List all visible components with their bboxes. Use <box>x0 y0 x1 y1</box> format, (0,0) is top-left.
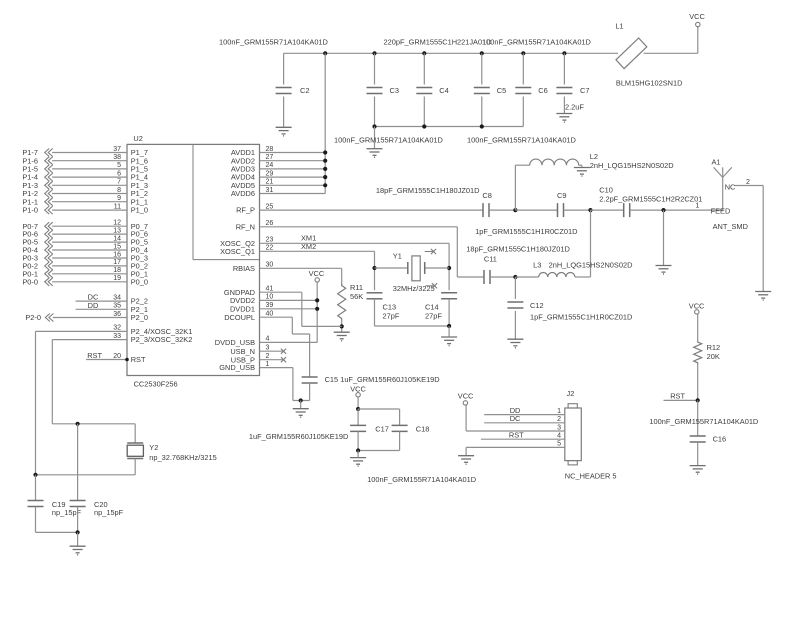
ground <box>441 336 457 338</box>
svg-text:CC2530F256: CC2530F256 <box>134 380 178 389</box>
node junction <box>513 275 517 279</box>
svg-text:27pF: 27pF <box>383 312 400 321</box>
svg-text:C4: C4 <box>439 86 448 95</box>
svg-text:20: 20 <box>113 353 121 360</box>
svg-text:24: 24 <box>266 162 274 169</box>
svg-text:34: 34 <box>113 294 121 301</box>
capacitor C12 <box>514 277 516 299</box>
inductor L2 <box>514 165 516 210</box>
ferrite bead L1 <box>616 38 647 69</box>
power VCC <box>696 22 700 26</box>
capacitor C4 <box>422 51 426 55</box>
wire XOSC_32K2 <box>51 340 53 424</box>
svg-text:40: 40 <box>266 311 274 318</box>
svg-text:DC: DC <box>510 414 521 423</box>
svg-text:XM2: XM2 <box>301 242 316 251</box>
ground <box>70 545 86 547</box>
svg-text:C18: C18 <box>416 425 430 434</box>
svg-text:P1_0: P1_0 <box>131 206 148 215</box>
ground <box>458 455 474 457</box>
svg-text:22: 22 <box>266 245 274 252</box>
node junction <box>356 407 360 411</box>
node junction <box>340 324 344 328</box>
wire <box>644 52 698 54</box>
wire <box>36 531 78 533</box>
resistor R12 <box>694 340 702 365</box>
svg-text:RF_P: RF_P <box>236 206 255 215</box>
wire <box>762 186 764 292</box>
svg-text:C3: C3 <box>390 86 399 95</box>
node junction <box>372 124 376 128</box>
pin 9 P1_1 <box>52 201 127 203</box>
svg-text:GND_USB: GND_USB <box>219 363 255 372</box>
net AVDD rail <box>324 53 326 193</box>
svg-text:11: 11 <box>114 203 121 210</box>
pin 8 P1_2 <box>52 193 127 195</box>
wire <box>375 325 450 327</box>
ground <box>350 457 366 459</box>
no-connect mark <box>425 251 433 253</box>
resistor R11 <box>341 268 343 283</box>
svg-text:C5: C5 <box>497 86 506 95</box>
svg-text:2nH_LQG15HS2N0S02D: 2nH_LQG15HS2N0S02D <box>590 161 674 170</box>
pin 16 P0_3 <box>52 257 127 259</box>
svg-text:C14: C14 <box>425 303 439 312</box>
svg-text:L2: L2 <box>590 152 598 161</box>
pin 3 USB_N <box>260 350 284 352</box>
svg-text:AVDD6: AVDD6 <box>231 189 255 198</box>
svg-text:FEED: FEED <box>711 206 731 215</box>
svg-text:33: 33 <box>113 333 121 340</box>
svg-text:VCC: VCC <box>689 12 705 21</box>
svg-text:XOSC_Q1: XOSC_Q1 <box>220 247 255 256</box>
svg-text:DVDD_USB: DVDD_USB <box>215 338 255 347</box>
pin 2 DC <box>484 422 565 424</box>
node junction <box>447 324 451 328</box>
svg-text:NC_HEADER 5: NC_HEADER 5 <box>565 471 617 480</box>
svg-text:32MHz/3225: 32MHz/3225 <box>393 284 435 293</box>
svg-text:37: 37 <box>113 146 121 153</box>
svg-text:36: 36 <box>113 311 121 318</box>
node junction <box>76 530 80 534</box>
svg-text:RST: RST <box>131 355 146 364</box>
svg-text:C9: C9 <box>557 191 566 200</box>
ground <box>690 465 706 467</box>
pin 28 AVDD1 <box>260 152 326 154</box>
node junction <box>299 398 303 402</box>
ground <box>276 126 292 128</box>
pin 14 P0_5 <box>52 241 127 243</box>
pin 41 GNDPAD <box>260 291 302 293</box>
capacitor C18 <box>399 409 401 425</box>
svg-text:21: 21 <box>266 179 274 186</box>
node junction <box>323 51 327 55</box>
svg-text:U2: U2 <box>133 134 142 143</box>
pin 15 P0_4 <box>52 249 127 251</box>
wire <box>358 450 400 452</box>
ground <box>656 265 672 267</box>
node junction <box>33 473 37 477</box>
wire <box>77 532 79 546</box>
wire <box>358 408 400 410</box>
svg-text:1: 1 <box>557 408 561 415</box>
pin 19 P0_0 <box>52 281 127 283</box>
svg-text:1uF_GRM155R60J105KE19D: 1uF_GRM155R60J105KE19D <box>249 432 348 441</box>
svg-text:C13: C13 <box>383 303 397 312</box>
pin 33 P2_3/XOSC_32K2 <box>52 339 127 341</box>
svg-text:5: 5 <box>557 441 561 448</box>
wire <box>284 52 618 54</box>
svg-text:15: 15 <box>113 243 121 250</box>
svg-text:7: 7 <box>117 179 121 186</box>
pin 24 AVDD3 <box>260 168 326 170</box>
svg-text:26: 26 <box>266 220 274 227</box>
pin 30 RBIAS <box>260 267 342 269</box>
connector J2 NC_HEADER 5 <box>565 408 582 461</box>
ground <box>556 113 572 115</box>
pin 1 GND_USB <box>260 367 293 369</box>
svg-text:P1-0: P1-0 <box>22 206 38 215</box>
svg-text:C10: C10 <box>599 185 613 194</box>
svg-text:4: 4 <box>557 433 561 440</box>
svg-text:100nF_GRM155R71A104KA01D: 100nF_GRM155R71A104KA01D <box>334 136 443 145</box>
ground <box>293 408 309 410</box>
svg-text:C7: C7 <box>580 86 589 95</box>
svg-text:C11: C11 <box>484 255 497 264</box>
pin 34 P2_2 <box>76 300 127 302</box>
svg-text:ANT_SMD: ANT_SMD <box>713 222 748 231</box>
svg-text:2.2uF: 2.2uF <box>565 103 584 112</box>
pin 18 P0_1 <box>52 273 127 275</box>
svg-text:4: 4 <box>266 336 270 343</box>
svg-text:3: 3 <box>266 345 270 352</box>
svg-text:23: 23 <box>266 237 274 244</box>
svg-text:P2_3/XOSC_32K2: P2_3/XOSC_32K2 <box>131 335 193 344</box>
pin 31 AVDD6 <box>260 193 326 195</box>
svg-text:1pF_GRM1555C1H1R0CZ01D: 1pF_GRM1555C1H1R0CZ01D <box>530 313 632 322</box>
wire <box>456 227 458 277</box>
svg-text:18pF_GRM1555C1H180JZ01D: 18pF_GRM1555C1H180JZ01D <box>466 245 570 254</box>
svg-text:C8: C8 <box>482 191 491 200</box>
svg-text:18: 18 <box>113 267 121 274</box>
svg-text:C17: C17 <box>375 425 389 434</box>
capacitor C6 <box>521 51 525 55</box>
svg-text:27: 27 <box>266 154 274 161</box>
svg-text:100nF_GRM155R71A104KA01D: 100nF_GRM155R71A104KA01D <box>649 417 758 426</box>
pin 38 P1_6 <box>52 160 127 162</box>
svg-text:2.2pF_GRM1555C1H2R2CZ01: 2.2pF_GRM1555C1H2R2CZ01 <box>599 195 702 204</box>
capacitor C10 <box>623 203 625 217</box>
capacitor C7 <box>562 51 566 55</box>
svg-text:30: 30 <box>266 262 274 269</box>
svg-text:R11: R11 <box>350 283 363 292</box>
svg-text:20K: 20K <box>707 352 720 361</box>
svg-text:BLM15HG102SN1D: BLM15HG102SN1D <box>616 79 683 88</box>
pin 4 DVDD_USB <box>260 341 318 343</box>
svg-text:VCC: VCC <box>458 392 474 401</box>
pin 3 VCC <box>466 430 565 432</box>
svg-text:29: 29 <box>266 170 274 177</box>
pin 40 DCOUPL <box>260 316 293 318</box>
svg-text:P0_0: P0_0 <box>131 277 148 286</box>
wire <box>374 127 376 149</box>
capacitor C11 <box>483 270 485 284</box>
pin 5 P1_5 <box>52 168 127 170</box>
svg-text:2: 2 <box>746 179 750 186</box>
svg-text:2: 2 <box>557 416 561 423</box>
inductor L3 <box>515 276 538 278</box>
wire <box>448 243 450 290</box>
svg-text:25: 25 <box>266 203 274 210</box>
wire <box>374 251 376 290</box>
pin 4 RST <box>481 438 565 440</box>
svg-text:9: 9 <box>117 195 121 202</box>
node junction <box>356 448 360 452</box>
svg-text:RST: RST <box>509 430 524 439</box>
svg-text:np_15pF: np_15pF <box>94 508 124 517</box>
svg-text:A1: A1 <box>712 157 721 166</box>
svg-text:1: 1 <box>696 203 700 210</box>
node junction <box>76 422 80 426</box>
pin 26 RF_N <box>260 226 458 228</box>
capacitor C2 <box>283 53 285 84</box>
crystal Y2 <box>134 424 136 443</box>
svg-text:Y2: Y2 <box>149 443 158 452</box>
svg-text:100nF_GRM155R71A104KA01D: 100nF_GRM155R71A104KA01D <box>219 38 328 47</box>
wire <box>697 27 699 54</box>
capacitor C5 <box>480 51 484 55</box>
wire XOSC_32K1 <box>35 331 37 474</box>
pin 20 RST <box>86 359 127 361</box>
svg-text:RF_N: RF_N <box>236 222 255 231</box>
svg-text:DD: DD <box>88 301 99 310</box>
pin 21 AVDD5 <box>260 184 326 186</box>
antenna A1 <box>722 167 724 210</box>
pin 2 USB_P <box>260 359 284 361</box>
pin 29 AVDD4 <box>260 176 326 178</box>
pin 25 RF_P <box>260 209 484 211</box>
no-connect mark <box>426 285 434 287</box>
svg-text:14: 14 <box>113 235 121 242</box>
pin 39 DVDD1 <box>260 308 318 310</box>
svg-text:RST: RST <box>670 392 685 401</box>
wire <box>300 401 302 409</box>
ground <box>367 148 383 150</box>
ground <box>574 167 590 169</box>
svg-text:35: 35 <box>113 303 121 310</box>
svg-text:VCC: VCC <box>309 269 325 278</box>
svg-text:13: 13 <box>113 227 121 234</box>
net RST <box>664 399 698 401</box>
wire <box>663 210 665 265</box>
pin 35 P2_1 <box>76 308 127 310</box>
pin 23 XOSC_Q2 <box>260 242 450 244</box>
svg-text:VCC: VCC <box>689 302 705 311</box>
svg-text:NC: NC <box>725 183 736 192</box>
crystal Y1 <box>375 267 408 269</box>
pin 22 XOSC_Q1 <box>260 250 375 252</box>
node junction <box>372 266 376 270</box>
ground <box>507 338 523 340</box>
wire <box>515 209 557 211</box>
node junction <box>588 208 592 212</box>
pin 6 P1_4 <box>52 176 127 178</box>
svg-text:220pF_GRM1555C1H221JA01D: 220pF_GRM1555C1H221JA01D <box>384 38 492 47</box>
wire <box>375 126 524 128</box>
svg-text:39: 39 <box>266 302 274 309</box>
node junction <box>661 208 665 212</box>
pin 36 P2_0 <box>53 317 127 319</box>
ic U2 CC2530F256 <box>127 144 260 375</box>
pin 5 GND <box>466 446 565 448</box>
capacitor C20 <box>77 424 79 501</box>
pin 1 DD <box>484 414 565 416</box>
svg-text:P2_0: P2_0 <box>131 313 148 322</box>
ground <box>334 331 350 333</box>
capacitor C14 <box>441 292 457 294</box>
svg-text:38: 38 <box>113 154 121 161</box>
wire <box>591 209 624 211</box>
svg-text:J2: J2 <box>567 389 575 398</box>
svg-text:P0-0: P0-0 <box>22 277 38 286</box>
svg-text:C2: C2 <box>300 86 309 95</box>
svg-text:3: 3 <box>557 424 561 431</box>
capacitor C16 <box>697 400 699 436</box>
capacitor C19 <box>35 475 37 501</box>
svg-text:np_32.768KHz/3215: np_32.768KHz/3215 <box>149 453 216 462</box>
svg-text:C16: C16 <box>713 435 727 444</box>
svg-text:Y1: Y1 <box>393 252 402 261</box>
svg-text:41: 41 <box>266 286 274 293</box>
svg-text:12: 12 <box>113 220 121 227</box>
capacitor C13 <box>367 292 383 294</box>
svg-text:17: 17 <box>113 259 121 266</box>
svg-text:8: 8 <box>117 187 121 194</box>
pin 11 P1_0 <box>52 209 127 211</box>
svg-text:31: 31 <box>266 187 274 194</box>
svg-text:100nF_GRM155R71A104KA01D: 100nF_GRM155R71A104KA01D <box>367 475 476 484</box>
pin 32 P2_4/XOSC_32K1 <box>36 330 128 332</box>
capacitor C15 <box>302 376 318 378</box>
svg-text:5: 5 <box>117 162 121 169</box>
svg-text:RST: RST <box>87 351 102 360</box>
svg-text:100nF_GRM155R71A104KA01D: 100nF_GRM155R71A104KA01D <box>482 38 591 47</box>
svg-text:56K: 56K <box>350 292 363 301</box>
capacitor C8 <box>482 203 484 217</box>
svg-text:RBIAS: RBIAS <box>233 264 255 273</box>
ground <box>755 291 771 293</box>
pin 12 P0_7 <box>52 225 127 227</box>
svg-text:28: 28 <box>266 146 274 153</box>
pin 37 P1_7 <box>52 152 127 154</box>
pin 17 P0_2 <box>52 265 127 267</box>
capacitor C9 <box>557 203 559 217</box>
svg-text:R12: R12 <box>707 343 721 352</box>
svg-text:C6: C6 <box>538 86 547 95</box>
svg-text:DCOUPL: DCOUPL <box>224 313 255 322</box>
svg-text:C15 1uF_GRM155R60J105KE19D: C15 1uF_GRM155R60J105KE19D <box>325 375 440 384</box>
svg-text:C12: C12 <box>530 301 544 310</box>
svg-text:1: 1 <box>266 361 270 368</box>
svg-text:2: 2 <box>266 353 270 360</box>
capacitor C3 <box>372 51 376 55</box>
node junction <box>513 208 517 212</box>
pin 27 AVDD2 <box>260 160 326 162</box>
svg-text:6: 6 <box>117 170 121 177</box>
svg-text:2nH_LQG15HS2N0S02D: 2nH_LQG15HS2N0S02D <box>549 260 633 269</box>
node junction <box>696 398 700 402</box>
capacitor C17 <box>357 409 359 425</box>
pin 13 P0_6 <box>52 233 127 235</box>
svg-text:L3: L3 <box>533 260 541 269</box>
pin 2 NC <box>735 185 764 187</box>
svg-text:19: 19 <box>113 275 121 282</box>
svg-text:10: 10 <box>266 294 274 301</box>
svg-text:100nF_GRM155R71A104KA01D: 100nF_GRM155R71A104KA01D <box>467 136 576 145</box>
svg-text:32: 32 <box>113 325 121 332</box>
wire <box>448 326 450 337</box>
svg-text:P2-0: P2-0 <box>25 313 41 322</box>
svg-text:27pF: 27pF <box>425 312 442 321</box>
pin 7 P1_3 <box>52 184 127 186</box>
svg-text:1pF_GRM1555C1H1R0CZ01D: 1pF_GRM1555C1H1R0CZ01D <box>475 227 577 236</box>
svg-text:VCC: VCC <box>350 384 366 393</box>
svg-text:16: 16 <box>113 251 121 258</box>
svg-text:L1: L1 <box>615 22 623 31</box>
svg-text:18pF_GRM1555C1H180JZ01D: 18pF_GRM1555C1H180JZ01D <box>376 186 480 195</box>
wire <box>36 474 136 476</box>
pin 10 DVDD2 <box>260 299 318 301</box>
